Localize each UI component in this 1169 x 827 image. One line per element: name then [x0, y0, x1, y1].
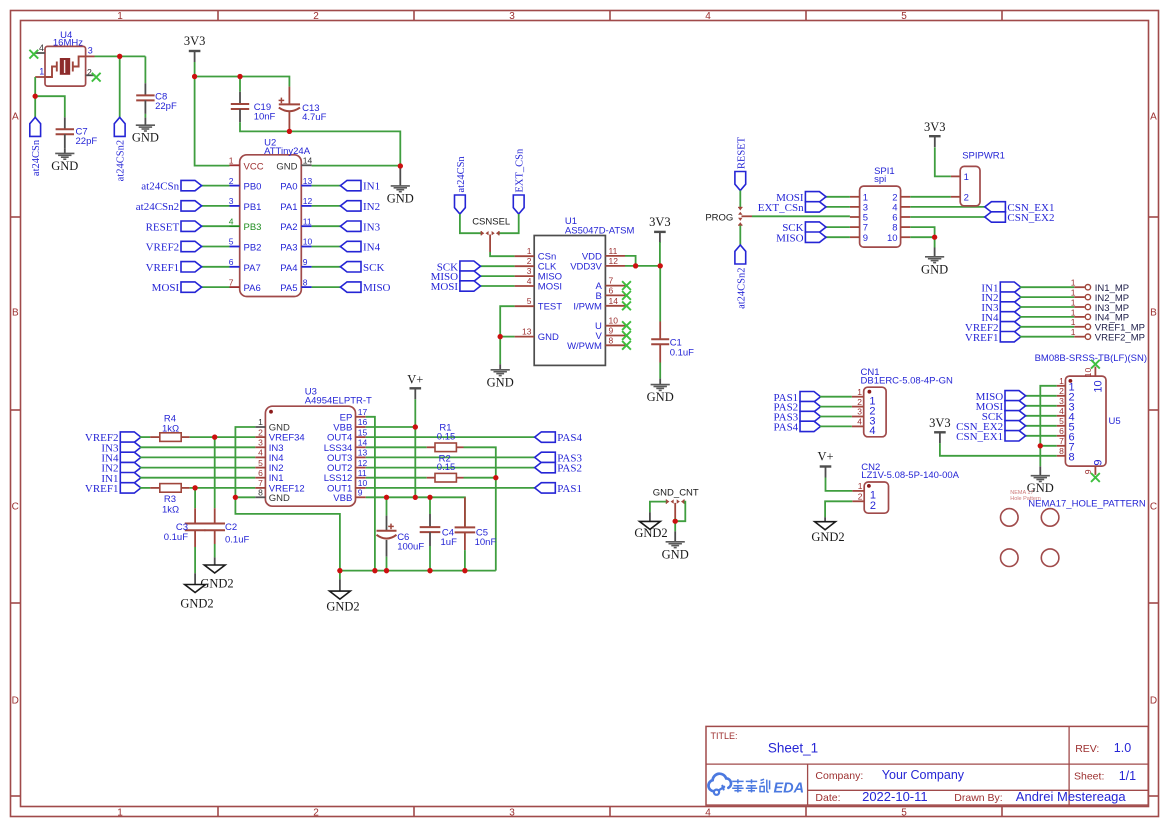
no-connect X U5 pin 10	[1091, 360, 1100, 369]
ground GND2 (C3)	[180, 585, 213, 611]
svg-text:I/PWM: I/PWM	[573, 301, 602, 312]
connector U5 BM08B-SRSS-TB	[1057, 367, 1121, 475]
ground GND (SPI1)	[921, 257, 948, 277]
wire	[825, 206, 850, 208]
svg-text:1: 1	[229, 156, 234, 166]
label NEMA17 hole pattern	[1010, 490, 1146, 509]
svg-text:VREF2: VREF2	[146, 242, 180, 254]
connector SPIPWR1	[951, 150, 1005, 206]
svg-text:4.7uF: 4.7uF	[302, 112, 326, 123]
wire	[739, 226, 741, 246]
svg-text:MISO: MISO	[776, 232, 804, 244]
resistor R4 1k	[150, 414, 190, 442]
wire	[910, 227, 934, 237]
wire	[312, 246, 341, 248]
logo JLC EDA	[708, 774, 804, 797]
svg-text:LZ1V-5.08-5P-140-00A: LZ1V-5.08-5P-140-00A	[861, 470, 959, 481]
svg-text:11: 11	[303, 216, 312, 226]
wire	[119, 56, 121, 117]
wire	[935, 147, 951, 176]
svg-text:1: 1	[117, 808, 123, 819]
junction	[413, 424, 418, 429]
svg-text:RESET: RESET	[736, 136, 747, 169]
net flag RESET	[146, 221, 202, 233]
svg-text:A: A	[12, 112, 19, 123]
wire	[366, 426, 416, 428]
svg-text:SPIPWR1: SPIPWR1	[962, 150, 1005, 161]
wire	[1025, 405, 1057, 407]
wire	[190, 487, 256, 489]
connector CN1 DB1ERC-5.08-4P-GN	[852, 367, 953, 437]
svg-text:14: 14	[303, 156, 313, 166]
svg-text:PB2: PB2	[244, 243, 262, 254]
wire	[825, 226, 850, 228]
svg-text:2: 2	[87, 68, 92, 78]
wire	[201, 266, 230, 268]
svg-text:SCK: SCK	[363, 262, 384, 274]
svg-text:at24CSn2: at24CSn2	[116, 140, 127, 181]
net flag PAS3	[535, 452, 583, 464]
svg-text:8: 8	[1059, 446, 1064, 456]
capacitor C3	[164, 508, 206, 547]
net flag IN4	[340, 241, 380, 253]
svg-text:2: 2	[258, 427, 263, 437]
net flag MOSI	[776, 192, 826, 204]
capacitor C1	[651, 322, 694, 363]
mounting hole H4	[1041, 549, 1059, 567]
wire	[366, 467, 535, 469]
junction	[384, 568, 389, 573]
svg-text:MOSI: MOSI	[538, 282, 562, 293]
svg-text:V+: V+	[817, 449, 833, 463]
power V+ (U3)	[407, 372, 423, 399]
svg-text:GND2: GND2	[326, 600, 359, 614]
svg-text:12: 12	[358, 458, 368, 468]
svg-text:13: 13	[303, 176, 313, 186]
wire	[674, 503, 676, 518]
svg-text:3V3: 3V3	[929, 416, 951, 430]
svg-text:2: 2	[527, 256, 532, 266]
wire	[34, 77, 36, 117]
svg-text:5: 5	[258, 458, 263, 468]
svg-text:VREF2_MP: VREF2_MP	[1095, 333, 1145, 344]
svg-text:CSN_EX1: CSN_EX1	[956, 431, 1003, 443]
junction	[33, 94, 38, 99]
svg-text:D: D	[1150, 696, 1157, 707]
wire	[1025, 435, 1057, 437]
net tie PROG	[705, 207, 742, 225]
wire	[339, 571, 341, 580]
wire	[650, 502, 666, 513]
net flag IN1	[101, 473, 141, 485]
net flag MISO (U5)	[976, 391, 1026, 403]
wire	[826, 478, 853, 491]
net flag IN3	[101, 442, 141, 454]
svg-text:NEMA17_HOLE_PATTERN: NEMA17_HOLE_PATTERN	[1028, 498, 1146, 509]
svg-text:4: 4	[527, 276, 532, 286]
svg-text:3: 3	[857, 407, 862, 417]
wire	[201, 225, 230, 227]
junction	[337, 568, 342, 573]
svg-text:1: 1	[857, 387, 862, 397]
wire	[910, 236, 934, 238]
net flag IN3	[340, 221, 380, 233]
junction	[932, 235, 937, 240]
svg-text:5: 5	[901, 11, 907, 22]
svg-text:8: 8	[258, 488, 263, 498]
power V+ (CN2)	[817, 449, 833, 477]
capacitor C7	[56, 117, 98, 148]
svg-text:1: 1	[527, 246, 532, 256]
svg-text:GND: GND	[387, 191, 414, 205]
wire	[312, 225, 341, 227]
power 3V3 (SPIPWR1)	[924, 120, 946, 147]
net flag VREF1	[146, 262, 202, 274]
svg-text:1: 1	[39, 66, 44, 76]
svg-text:2: 2	[964, 192, 969, 203]
svg-text:1: 1	[1071, 278, 1076, 288]
junction	[462, 568, 467, 573]
connector SPI1 spi	[850, 166, 910, 247]
wire (GND2 bus)	[340, 570, 496, 572]
wire	[201, 246, 230, 248]
svg-text:2: 2	[857, 397, 862, 407]
wire	[825, 236, 850, 238]
wire	[1020, 326, 1074, 328]
title block	[706, 726, 1148, 805]
wire	[480, 275, 515, 277]
svg-text:C: C	[12, 502, 19, 513]
svg-text:C2: C2	[225, 522, 237, 533]
svg-text:1: 1	[964, 172, 969, 183]
svg-text:5: 5	[1059, 416, 1064, 426]
wire	[144, 56, 146, 83]
svg-text:DB1ERC-5.08-4P-GN: DB1ERC-5.08-4P-GN	[861, 375, 954, 386]
svg-text:VREF1: VREF1	[965, 332, 999, 344]
svg-text:PB0: PB0	[244, 182, 262, 193]
junction	[673, 519, 678, 524]
wire	[414, 427, 416, 497]
svg-text:6: 6	[229, 257, 234, 267]
svg-text:10nF: 10nF	[254, 112, 276, 123]
resistor R2 0.15	[427, 453, 464, 482]
svg-text:0.1uF: 0.1uF	[225, 534, 249, 545]
svg-text:9: 9	[609, 326, 614, 336]
svg-text:PA1: PA1	[280, 202, 297, 213]
IC U1 AS5047D-ATSM	[515, 216, 635, 365]
net flag at24CSn	[141, 180, 201, 192]
wire	[934, 237, 936, 247]
net flag SCK	[340, 262, 384, 274]
wire	[235, 427, 340, 571]
junction	[427, 495, 432, 500]
net flag at24CSn2	[735, 245, 747, 309]
svg-text:B: B	[596, 291, 602, 302]
wire	[240, 122, 400, 166]
wire	[480, 285, 515, 287]
wire	[659, 242, 661, 266]
svg-text:5: 5	[229, 237, 234, 247]
svg-text:11: 11	[609, 246, 618, 256]
wire	[195, 77, 290, 87]
svg-text:17: 17	[358, 407, 368, 417]
net flag IN2	[340, 201, 380, 213]
wire	[1025, 415, 1057, 417]
mounting hole H3	[1001, 549, 1019, 567]
test point VREF2_MP	[1071, 327, 1145, 343]
wire	[140, 467, 255, 469]
junction	[193, 485, 198, 490]
power 3V3 (U5)	[929, 416, 951, 443]
svg-text:GND2: GND2	[180, 597, 213, 611]
junction	[233, 495, 238, 500]
ground GND2 (C2)	[200, 565, 233, 590]
svg-text:10: 10	[1083, 367, 1093, 377]
wire	[312, 205, 341, 207]
svg-text:4: 4	[857, 417, 862, 427]
svg-text:1: 1	[117, 11, 123, 22]
svg-text:3: 3	[527, 266, 532, 276]
no-connect X pin4 U4	[29, 50, 38, 59]
connector CN2 LZ1V-5.08-5P-140-00A	[852, 462, 959, 513]
net flag VREF2 (test point)	[965, 322, 1021, 334]
svg-text:0.1uF: 0.1uF	[670, 347, 694, 358]
net tie GND_CNT	[653, 487, 699, 503]
net flag PAS1	[535, 483, 582, 495]
wire	[194, 547, 196, 573]
svg-text:1: 1	[258, 417, 263, 427]
wire	[366, 477, 427, 479]
svg-text:V+: V+	[407, 372, 423, 386]
svg-text:GND: GND	[132, 131, 159, 145]
net flag at24CSn	[30, 117, 42, 176]
svg-text:PA6: PA6	[244, 283, 261, 294]
ground GND (C7)	[51, 153, 78, 173]
junction	[237, 74, 242, 79]
no-connect X pin2 U4	[92, 73, 101, 82]
svg-text:1: 1	[858, 481, 863, 491]
ground GND (U1)	[487, 370, 514, 390]
capacitor C13 (polarized)	[279, 87, 327, 132]
no-connect X U1 pin 9	[622, 331, 631, 340]
svg-text:RESET: RESET	[146, 221, 180, 233]
test point IN2_MP	[1071, 288, 1129, 304]
svg-text:2022-10-11: 2022-10-11	[862, 789, 928, 804]
IC U3 A4954ELPTR-T	[255, 386, 372, 506]
svg-text:CSNSEL: CSNSEL	[472, 217, 510, 228]
wire	[366, 497, 465, 527]
svg-text:GND2: GND2	[811, 530, 844, 544]
svg-text:1: 1	[1071, 317, 1076, 327]
wire	[659, 266, 661, 322]
wire	[140, 487, 150, 489]
svg-text:1kΩ: 1kΩ	[162, 423, 179, 434]
svg-text:TITLE:: TITLE:	[711, 731, 738, 741]
wire	[825, 196, 850, 198]
ground GND (U5)	[1027, 476, 1054, 496]
wire	[366, 487, 535, 489]
net flag EXT_CSn	[758, 202, 826, 214]
svg-text:3: 3	[88, 45, 93, 55]
wire	[366, 456, 535, 458]
svg-text:Company:: Company:	[815, 770, 863, 782]
net flag MISO	[340, 282, 390, 294]
test point IN3_MP	[1071, 297, 1129, 313]
svg-text:7: 7	[609, 276, 614, 286]
wire	[825, 501, 852, 517]
wire	[940, 443, 1057, 456]
ground GND2 (bus)	[326, 591, 359, 614]
no-connect X U1 pin 6	[622, 291, 631, 300]
svg-text:C: C	[1150, 502, 1157, 513]
ground GND2 (GND_CNT)	[634, 521, 667, 539]
svg-text:VREF1: VREF1	[146, 262, 180, 274]
svg-text:4: 4	[705, 808, 711, 819]
junction	[372, 568, 377, 573]
wire	[386, 497, 388, 515]
svg-text:IN2: IN2	[363, 201, 380, 213]
net flag MISO	[431, 271, 481, 283]
net flag PAS1	[774, 392, 821, 404]
test point VREF1_MP	[1071, 317, 1145, 333]
svg-text:PA4: PA4	[280, 263, 297, 274]
junction	[1038, 443, 1043, 448]
wire	[464, 477, 496, 479]
svg-text:3: 3	[1059, 396, 1064, 406]
svg-text:A: A	[1150, 112, 1157, 123]
svg-text:11: 11	[358, 468, 367, 478]
wire	[499, 337, 501, 365]
net flag MOSI (U5)	[976, 401, 1026, 413]
wire	[460, 214, 481, 233]
wire	[366, 446, 427, 448]
svg-text:13: 13	[522, 327, 532, 337]
svg-text:4: 4	[869, 425, 875, 437]
svg-text:3: 3	[509, 808, 515, 819]
svg-text:Sheet:: Sheet:	[1074, 771, 1104, 783]
svg-text:VDD3V: VDD3V	[570, 261, 602, 272]
svg-text:2: 2	[229, 176, 234, 186]
svg-text:spi: spi	[874, 174, 886, 185]
IC U2 ATTiny24A	[229, 137, 313, 296]
net flag IN2	[101, 462, 141, 474]
svg-text:Sheet_1: Sheet_1	[768, 741, 818, 756]
crystal U4	[35, 30, 95, 86]
net flag PAS4	[774, 421, 821, 433]
svg-text:GND: GND	[921, 262, 948, 276]
svg-text:6: 6	[609, 285, 614, 295]
svg-text:PAS4: PAS4	[774, 422, 799, 434]
net flag VREF1	[85, 483, 141, 495]
svg-text:MOSI: MOSI	[431, 281, 459, 293]
svg-text:2: 2	[313, 11, 319, 22]
junction	[287, 129, 292, 134]
wire	[386, 557, 388, 571]
svg-text:IN4: IN4	[363, 242, 381, 254]
svg-text:10: 10	[303, 237, 313, 247]
resistor R1 0.15	[427, 423, 464, 452]
wire	[190, 436, 256, 438]
junction	[398, 163, 403, 168]
svg-text:8: 8	[1069, 451, 1075, 463]
svg-text:GND: GND	[269, 493, 290, 504]
wire	[910, 216, 985, 218]
power 3V3 (U2)	[184, 34, 206, 62]
svg-text:3: 3	[258, 438, 263, 448]
no-connect X U5 pin 9	[1091, 473, 1100, 482]
wire	[312, 266, 341, 268]
svg-text:9: 9	[358, 488, 363, 498]
wire	[820, 416, 852, 418]
test point IN4_MP	[1071, 307, 1129, 323]
svg-text:MOSI: MOSI	[152, 282, 180, 294]
wire	[742, 215, 753, 217]
net flag MISO	[776, 232, 826, 244]
svg-text:at24CSn2: at24CSn2	[136, 201, 179, 213]
net flag at24CSn2	[114, 117, 126, 181]
svg-text:at24CSn: at24CSn	[31, 139, 42, 176]
wire	[500, 306, 514, 336]
svg-text:PA2: PA2	[280, 222, 297, 233]
svg-text:D: D	[12, 696, 19, 707]
svg-text:3: 3	[229, 196, 234, 206]
wire	[312, 185, 341, 187]
svg-text:at24CSn: at24CSn	[141, 181, 179, 193]
junction	[633, 263, 638, 268]
net tie CSNSEL	[472, 217, 510, 236]
svg-text:4: 4	[1059, 406, 1064, 416]
power 3V3 (U1)	[649, 215, 671, 243]
svg-text:GND: GND	[276, 161, 297, 172]
svg-text:MISO: MISO	[363, 282, 391, 294]
svg-text:Your Company: Your Company	[882, 768, 965, 782]
resistor R3 1k	[150, 484, 190, 516]
svg-text:U5: U5	[1109, 416, 1121, 427]
test point IN1_MP	[1071, 278, 1129, 294]
svg-text:EXT_CSn: EXT_CSn	[515, 148, 526, 193]
wire	[201, 286, 230, 288]
svg-text:GND_CNT: GND_CNT	[653, 487, 699, 498]
svg-text:PAS1: PAS1	[557, 483, 582, 495]
net flag IN1 (test point)	[981, 282, 1021, 294]
net flag VREF1 (test point)	[965, 332, 1021, 344]
net flag PAS4	[535, 432, 583, 444]
net flag at24CSn	[455, 156, 467, 214]
wire	[480, 265, 515, 267]
svg-text:10: 10	[609, 316, 619, 326]
wire	[35, 96, 65, 117]
wire	[414, 399, 416, 427]
wire	[239, 77, 241, 92]
wire	[214, 544, 216, 557]
svg-text:14: 14	[609, 296, 619, 306]
svg-text:BM08B-SRSS-TB(LF)(SN): BM08B-SRSS-TB(LF)(SN)	[1035, 353, 1147, 364]
net flag PAS2	[774, 401, 821, 413]
svg-text:1: 1	[1059, 376, 1064, 386]
no-connect X U1 pin 10	[622, 321, 631, 330]
svg-text:at24CSn: at24CSn	[456, 156, 467, 193]
wire	[739, 191, 741, 208]
svg-text:PAS2: PAS2	[557, 463, 582, 475]
svg-text:GND: GND	[51, 159, 78, 173]
capacitor C8	[136, 83, 177, 114]
net flag SCK	[782, 222, 826, 234]
wire	[366, 436, 535, 438]
svg-text:IN3: IN3	[363, 221, 381, 233]
svg-text:PB3: PB3	[244, 222, 262, 233]
svg-text:1uF: 1uF	[441, 537, 458, 548]
capacitor C19	[231, 92, 276, 123]
